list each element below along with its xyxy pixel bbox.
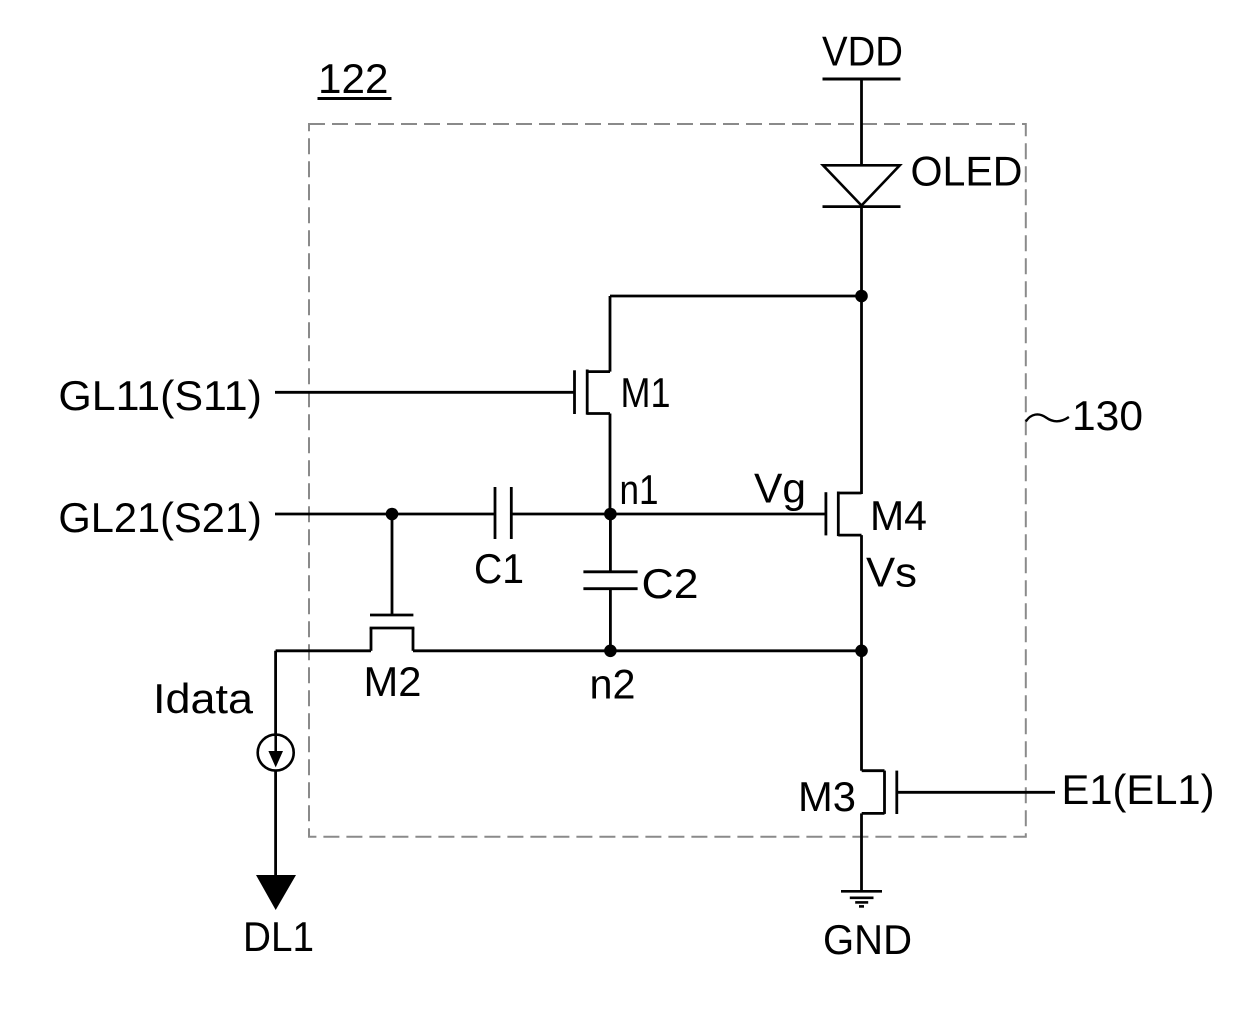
transistor M3 [862,771,897,814]
svg-text:DL1: DL1 [243,913,314,960]
svg-text:GND: GND [823,916,912,963]
wire VDD to OLED anode [860,79,863,165]
svg-text:GL21(S21): GL21(S21) [58,494,262,541]
wire junction down to M2 gate [391,514,394,615]
wire n2 column down to M3 drain [860,651,863,771]
svg-text:GL11(S11): GL11(S11) [58,372,262,419]
wire OLED cathode down to M4 drain [860,207,863,494]
node dot at M4 source / M3 drain [855,645,868,658]
capacitor C2 [583,572,637,589]
svg-text:C1: C1 [474,545,524,592]
svg-text:Vs: Vs [866,549,917,596]
svg-text:E1(EL1): E1(EL1) [1062,766,1215,813]
svg-text:VDD: VDD [822,28,903,75]
transistor M4 [826,492,862,537]
wire branch to M1 drain (horizontal) [610,295,862,298]
reference squiggle to 130 [1026,414,1069,421]
wire M3 source down to GND [860,813,863,891]
wire M4 source down to n2 row [860,535,863,651]
node junction dot at OLED/M1 branch [855,290,868,303]
ground symbol [841,891,882,906]
svg-text:Vg: Vg [754,465,806,512]
svg-text:M2: M2 [364,658,422,705]
transistor M1 [575,370,611,415]
arrow head DL1 [256,875,296,910]
node n1 dot [604,508,617,521]
wire GL21 to C1 left plate [275,513,495,516]
wire C2 bottom plate to n2 [609,589,612,651]
wire C1 right plate to M4 gate [511,513,826,516]
dashed box 130 (pixel boundary) [309,124,1026,837]
svg-text:M3: M3 [798,773,856,820]
wire M2 source to n2 and M4/M3 column [413,649,862,652]
wire M2 drain down to current source [274,651,277,735]
svg-text:M1: M1 [621,369,671,416]
svg-text:n2: n2 [590,661,636,708]
capacitor C1 [495,487,511,539]
svg-text:Idata: Idata [153,675,254,722]
transistor M2 [370,615,415,651]
wire M3 gate to E1 [897,791,1055,794]
wire M1 source down to node n1 [609,414,612,515]
wire current source down to DL1 arrow [274,771,277,885]
wire GL11 to M1 gate [275,391,575,394]
VDD supply bar [823,78,901,81]
svg-text:130: 130 [1072,392,1143,439]
junction dot GL21/M2 gate [386,508,399,521]
svg-text:122: 122 [318,55,389,102]
wire down to M1 drain stub [609,296,612,372]
current source Idata [258,735,294,771]
svg-text:n1: n1 [620,466,659,513]
diode OLED [823,165,901,206]
wire n1 down to C2 top plate [609,514,612,572]
node n2 dot [604,645,617,658]
label 122 [318,55,392,102]
svg-text:OLED: OLED [911,148,1023,195]
wire Idata column to M2 drain [276,649,371,652]
svg-text:C2: C2 [642,560,699,607]
svg-text:M4: M4 [870,492,927,539]
